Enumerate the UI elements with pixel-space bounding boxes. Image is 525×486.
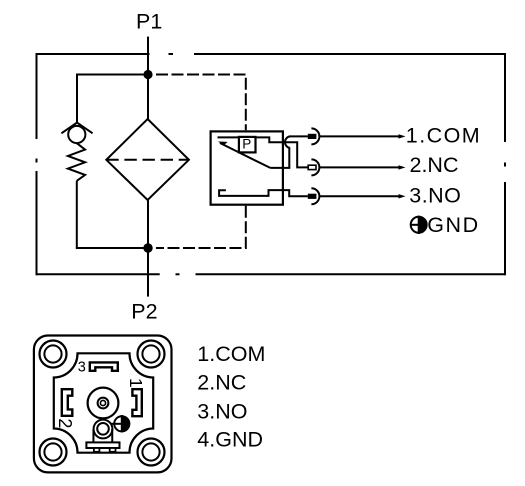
svg-text:P1: P1 bbox=[136, 10, 162, 34]
svg-text:3.NO: 3.NO bbox=[197, 399, 247, 423]
svg-text:1: 1 bbox=[126, 378, 146, 388]
svg-text:2: 2 bbox=[55, 418, 75, 428]
svg-text:2.NC: 2.NC bbox=[197, 371, 246, 395]
svg-text:P2: P2 bbox=[131, 299, 157, 323]
svg-text:1.COM: 1.COM bbox=[197, 342, 265, 366]
svg-text:P: P bbox=[242, 137, 251, 152]
svg-text:2.NC: 2.NC bbox=[410, 153, 459, 177]
svg-text:GND: GND bbox=[427, 213, 480, 237]
svg-text:3.NO: 3.NO bbox=[409, 183, 461, 207]
svg-text:1.COM: 1.COM bbox=[406, 123, 481, 147]
svg-text:3: 3 bbox=[78, 359, 86, 375]
svg-text:4.GND: 4.GND bbox=[197, 428, 263, 452]
